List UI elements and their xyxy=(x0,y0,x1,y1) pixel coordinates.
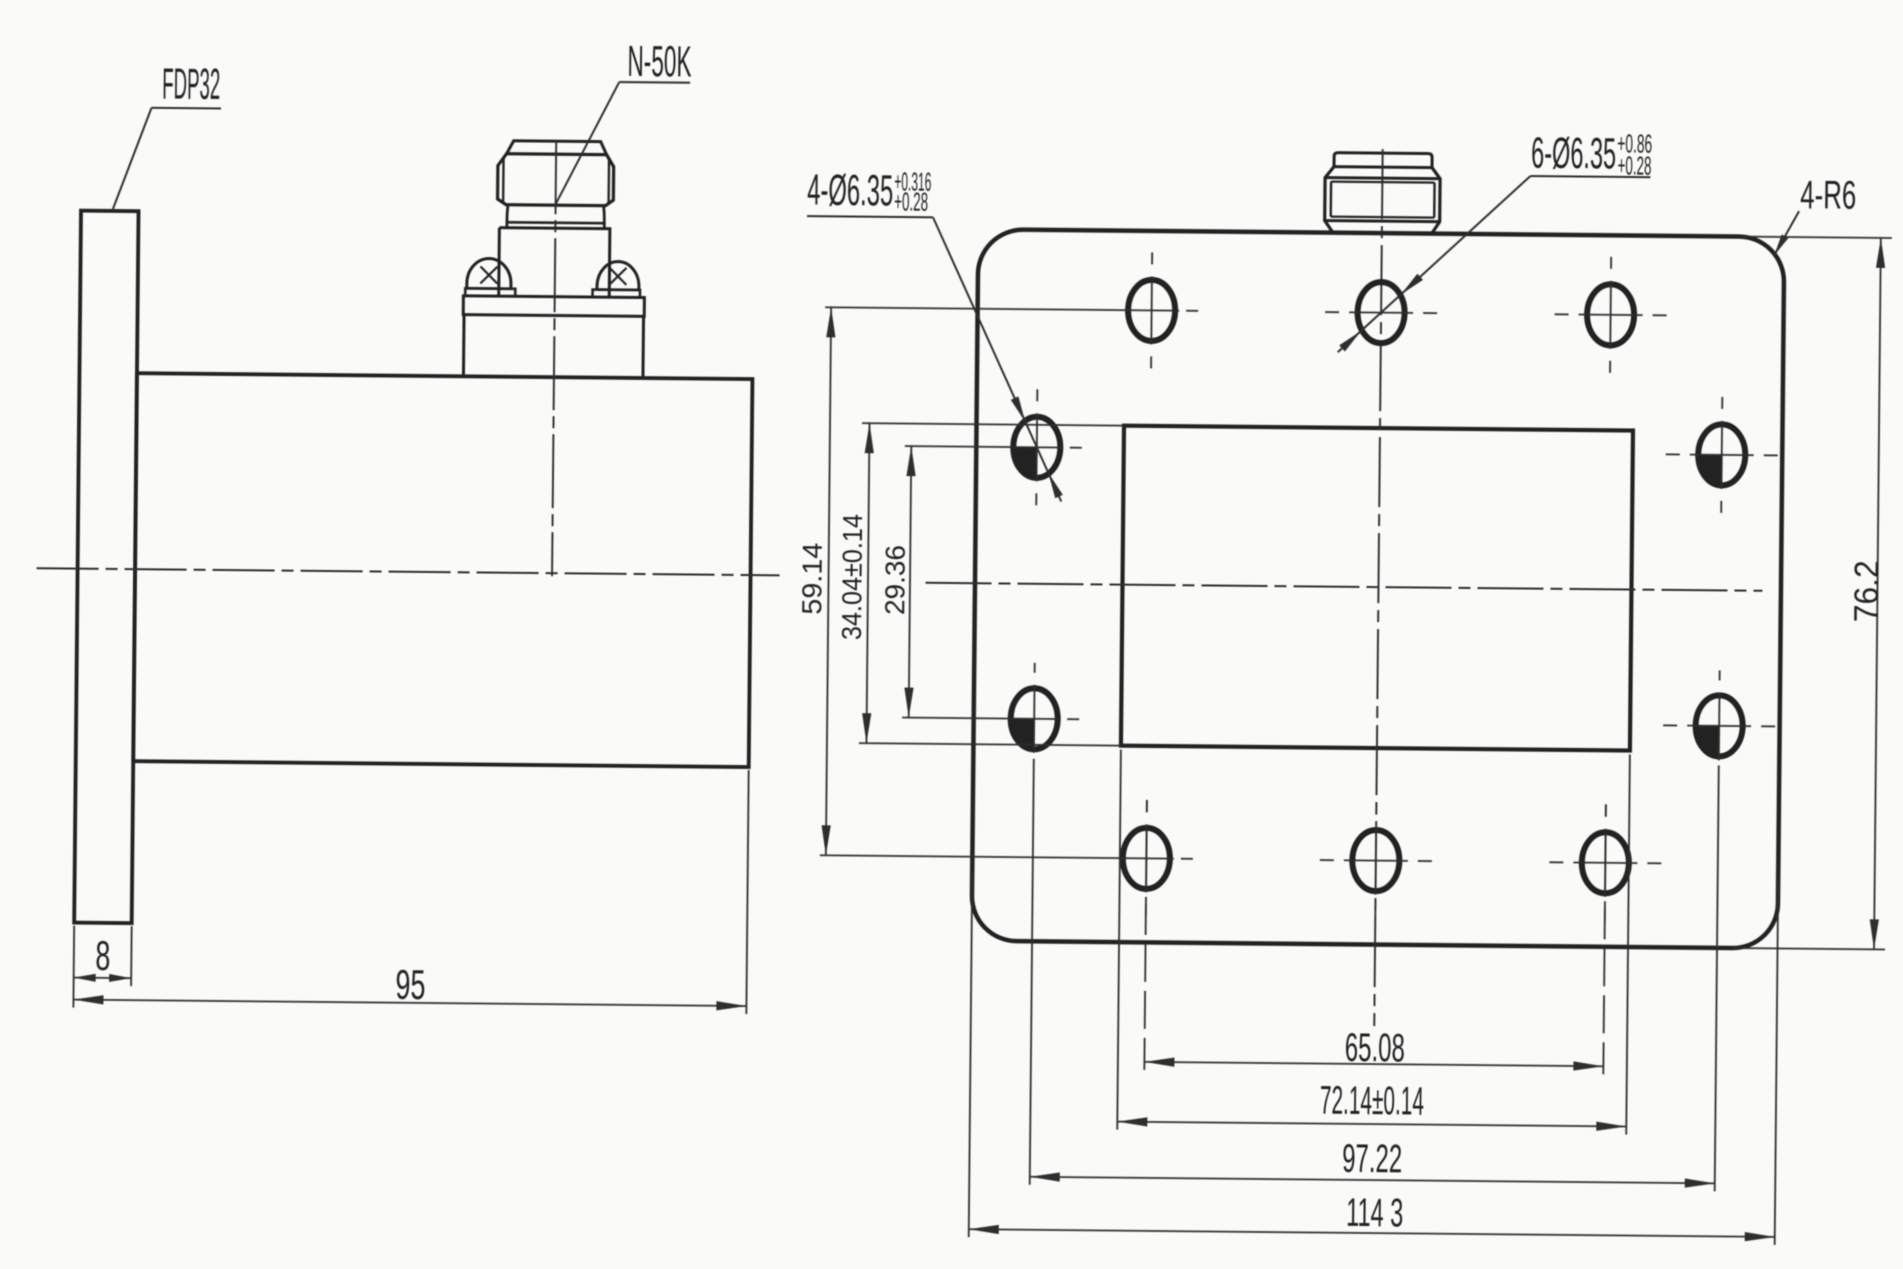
mounting screw right (side view) xyxy=(593,261,641,297)
dimension 29.36 xyxy=(878,446,916,718)
dowel hole lower-left xyxy=(1010,663,1058,753)
dimension 76.2 xyxy=(1733,237,1892,950)
bolt hole bottom-right xyxy=(1549,804,1662,921)
dimension 65.08 xyxy=(1144,1024,1603,1072)
extension line 72.14 left xyxy=(1117,750,1121,1130)
svg-text:FDP32: FDP32 xyxy=(162,59,220,109)
dowel hole upper-right xyxy=(1665,396,1778,513)
svg-text:4-R6: 4-R6 xyxy=(1800,173,1856,218)
svg-text:6-Ø6.35: 6-Ø6.35 xyxy=(1531,129,1616,179)
dimension 97.22 xyxy=(1030,1134,1715,1188)
dimension 72.14 +/-0.14 xyxy=(1117,1077,1626,1131)
label 4-dia6.35 +0.316/+0.28 with leader xyxy=(804,166,1066,502)
svg-text:8: 8 xyxy=(95,932,110,979)
plate horizontal centerline xyxy=(925,583,1762,591)
horizontal centerline (side view) xyxy=(37,568,780,575)
N connector (front view) xyxy=(1325,153,1441,235)
label 4-R6 with leader xyxy=(1774,173,1856,256)
top hole row line xyxy=(825,307,1198,311)
plate vertical centerline xyxy=(1374,149,1382,1026)
connector base block (side view) xyxy=(463,315,643,378)
extension line 65.08 left xyxy=(1144,800,1147,1070)
svg-text:76.2: 76.2 xyxy=(1848,560,1887,622)
lower middle row line xyxy=(902,718,1079,720)
dimension 34.04 +/-0.14 xyxy=(835,423,1124,746)
label FDP32 with leader xyxy=(113,59,222,210)
flange plate outline (front view) xyxy=(972,229,1785,948)
svg-text:N-50K: N-50K xyxy=(627,37,691,87)
dowel hole lower-right xyxy=(1663,670,1776,761)
waveguide aperture xyxy=(1121,426,1633,751)
svg-text:65.08: 65.08 xyxy=(1345,1026,1405,1071)
mounting screw left (side view) xyxy=(465,258,515,296)
svg-text:34.04±0.14: 34.04±0.14 xyxy=(836,514,868,640)
bolt hole bottom-left xyxy=(1122,800,1170,916)
connector base plate (side view) xyxy=(463,296,644,317)
N connector body (side view) xyxy=(499,228,610,298)
extension line 97.22 left xyxy=(1030,759,1034,1185)
svg-text:114 3: 114 3 xyxy=(1346,1191,1403,1236)
svg-text:+0.28: +0.28 xyxy=(894,186,928,216)
extension line 72.14 right xyxy=(1626,755,1630,1135)
dowel hole upper-left xyxy=(1013,389,1061,505)
bolt hole top-left xyxy=(1128,252,1176,368)
upper middle row line xyxy=(905,446,1082,448)
svg-text:72.14±0.14: 72.14±0.14 xyxy=(1320,1079,1424,1124)
svg-text:95: 95 xyxy=(395,961,425,1008)
dimension 114.3 xyxy=(969,1187,1775,1241)
adapter body (side view) xyxy=(133,373,752,767)
svg-text:59.14: 59.14 xyxy=(796,543,828,615)
bolt hole top-middle xyxy=(1325,282,1438,344)
extension line 114.3 right xyxy=(1775,880,1779,1245)
waveguide flange (side view) xyxy=(74,211,138,924)
connector vertical centerline (side view) xyxy=(552,140,556,576)
svg-text:4-Ø6.35: 4-Ø6.35 xyxy=(807,166,893,216)
N connector coupling nut (side view) xyxy=(497,141,614,229)
svg-text:97.22: 97.22 xyxy=(1342,1137,1402,1182)
bolt hole bottom-middle xyxy=(1319,802,1432,919)
dimension 95 (overall length) xyxy=(73,764,748,1014)
extension line 65.08 right xyxy=(1603,804,1606,1074)
label 6-dia6.35 +0.86/+0.28 with leader xyxy=(1338,126,1653,355)
bolt hole top-right xyxy=(1554,256,1667,373)
extension line 114.3 left xyxy=(969,872,973,1237)
dimension 59.14 xyxy=(794,307,836,855)
dimension 8 (flange thickness) xyxy=(73,926,131,1009)
svg-text:29.36: 29.36 xyxy=(879,545,911,615)
extension line 97.22 right xyxy=(1715,765,1719,1191)
bottom hole row line xyxy=(820,855,1193,859)
label N-50K with leader xyxy=(555,36,692,207)
